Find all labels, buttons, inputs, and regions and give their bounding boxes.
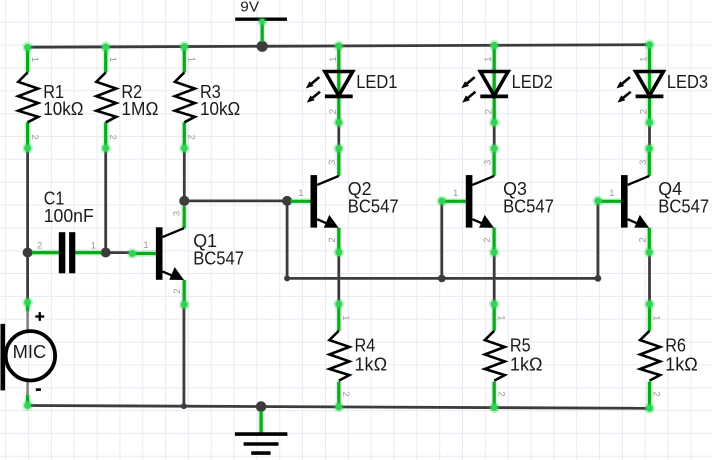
svg-text:100nF: 100nF — [44, 206, 94, 226]
wire R1 to C1 junction — [26, 148, 29, 252]
label MIC plus — [35, 315, 44, 317]
LED LED2 — [461, 40, 508, 128]
wire Q3 emitter to R5 — [493, 252, 496, 304]
wire LED2 cathode to Q3 collector — [493, 123, 496, 149]
node C1/R1 junction — [23, 248, 33, 258]
microphone MIC — [3, 297, 55, 411]
resistor R4 — [329, 299, 349, 413]
svg-text:3: 3 — [483, 160, 494, 165]
svg-text:2: 2 — [328, 109, 339, 114]
svg-text:R5: R5 — [510, 336, 531, 356]
svg-text:2: 2 — [340, 391, 351, 396]
svg-text:3: 3 — [327, 160, 338, 165]
svg-text:LED3: LED3 — [667, 72, 708, 92]
wire C1 junction down to MIC — [26, 253, 29, 303]
svg-text:10kΩ: 10kΩ — [43, 99, 83, 119]
node Q4 base bus corner — [595, 275, 602, 282]
svg-text:2: 2 — [495, 391, 506, 396]
wire base bus — [287, 277, 598, 280]
svg-text:1: 1 — [495, 315, 506, 320]
ground symbol — [235, 411, 288, 453]
svg-text:1: 1 — [29, 57, 40, 62]
transistor Q1 — [132, 206, 189, 310]
node Q2 base junction — [282, 196, 292, 206]
LED LED3 — [617, 39, 664, 128]
svg-text:2: 2 — [483, 109, 494, 114]
wire Q4 base drop — [597, 201, 600, 279]
svg-text:2: 2 — [186, 135, 197, 140]
svg-text:1: 1 — [483, 57, 494, 62]
svg-text:9V: 9V — [240, 0, 259, 16]
svg-text:2: 2 — [29, 135, 40, 140]
transistor Q3 — [442, 143, 500, 258]
svg-text:1: 1 — [91, 241, 96, 252]
svg-text:1: 1 — [143, 240, 148, 251]
svg-text:2: 2 — [638, 237, 649, 242]
wire base node to Q2 base — [184, 199, 287, 202]
svg-text:LED2: LED2 — [512, 72, 553, 92]
wire Q3 base drop — [440, 201, 443, 278]
svg-text:MIC: MIC — [13, 342, 47, 362]
wire Q2 emitter to R4 — [337, 252, 340, 304]
resistor R1 — [18, 42, 38, 154]
svg-text:R6: R6 — [665, 336, 686, 356]
svg-text:2: 2 — [482, 237, 493, 242]
svg-text:LED1: LED1 — [356, 72, 397, 92]
svg-text:1: 1 — [609, 188, 614, 199]
svg-text:1: 1 — [186, 57, 197, 62]
wire Q4 emitter to R6 — [648, 252, 651, 304]
svg-text:1kΩ: 1kΩ — [510, 355, 543, 375]
resistor R6 — [640, 299, 660, 414]
svg-text:3: 3 — [638, 160, 649, 165]
svg-text:1kΩ: 1kΩ — [355, 355, 388, 375]
svg-text:1: 1 — [107, 57, 118, 62]
wire top power rail — [28, 45, 650, 48]
node Q1 emitter/rail junction — [181, 403, 187, 409]
svg-text:1: 1 — [639, 57, 650, 62]
LED LED1 — [306, 41, 353, 128]
svg-text:3: 3 — [172, 211, 183, 216]
svg-text:BC547: BC547 — [503, 197, 554, 217]
svg-text:BC547: BC547 — [348, 197, 399, 217]
svg-text:2: 2 — [639, 109, 650, 114]
resistor R3 — [175, 41, 195, 154]
label MIC minus — [36, 388, 41, 391]
svg-text:BC547: BC547 — [658, 197, 709, 217]
svg-text:2: 2 — [327, 237, 338, 242]
capacitor C1 — [32, 232, 102, 273]
transistor Q4 — [598, 143, 655, 258]
svg-text:2: 2 — [651, 391, 662, 396]
svg-text:10kΩ: 10kΩ — [200, 99, 240, 119]
svg-text:R4: R4 — [355, 336, 376, 356]
svg-text:1kΩ: 1kΩ — [665, 355, 698, 375]
node R3/Q1 collector junction — [179, 196, 189, 206]
node Q3 base bus tee — [438, 275, 446, 283]
resistor R5 — [485, 299, 505, 413]
wire LED1 cathode to Q2 collector — [337, 123, 340, 149]
svg-text:2: 2 — [37, 241, 42, 252]
wire R3 down to base node — [183, 148, 186, 201]
node R3/Q1 collector junction dot — [179, 196, 189, 206]
node 9V junction on top rail — [257, 41, 268, 52]
wire LED3 cathode to Q4 collector — [648, 123, 651, 149]
svg-text:1MΩ: 1MΩ — [121, 99, 158, 119]
svg-text:1: 1 — [340, 315, 351, 320]
transistor Q2 — [291, 143, 345, 258]
node Q2 base bus corner — [284, 275, 290, 281]
wire bottom ground rail — [28, 406, 650, 409]
power supply 9V symbol — [235, 17, 287, 42]
svg-text:2: 2 — [172, 289, 183, 294]
svg-text:BC547: BC547 — [193, 249, 244, 269]
svg-text:1: 1 — [651, 315, 662, 320]
wire C1 junction to Q1 base — [106, 251, 133, 254]
wire Q1 emitter to ground rail — [182, 305, 185, 407]
svg-text:1: 1 — [453, 188, 458, 199]
node C1/R2 junction — [101, 248, 111, 258]
svg-text:1: 1 — [328, 57, 339, 62]
svg-text:1: 1 — [298, 188, 303, 199]
wire Q2 base drop — [286, 201, 289, 279]
wire R2 to C1 output junction — [104, 148, 107, 252]
node ground junction — [256, 401, 267, 412]
resistor R2 — [96, 41, 116, 153]
svg-text:2: 2 — [107, 135, 118, 140]
